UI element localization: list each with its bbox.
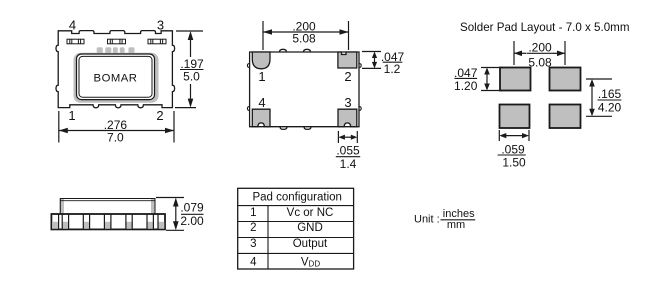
svg-text:1.4: 1.4 xyxy=(340,157,357,171)
svg-text:4: 4 xyxy=(69,18,76,33)
svg-text:5.0: 5.0 xyxy=(183,70,200,84)
dimension .047/1.2 right of bottom view xyxy=(362,52,381,69)
svg-text:.165: .165 xyxy=(598,87,622,101)
pad 4 xyxy=(252,109,270,127)
inner cavity gray tabs xyxy=(74,47,159,103)
bottom view bottom edge bump right xyxy=(304,127,311,130)
dimension .276/7.0 below top view xyxy=(59,111,174,143)
solder pad top-right xyxy=(550,68,581,91)
svg-text:Pad configuration: Pad configuration xyxy=(252,191,342,203)
svg-text:4: 4 xyxy=(250,256,257,268)
svg-text:7.0: 7.0 xyxy=(107,130,124,144)
top view package outline xyxy=(56,31,175,108)
svg-text:3: 3 xyxy=(344,95,351,110)
bottom view left edge notch upper xyxy=(247,64,249,68)
svg-text:3: 3 xyxy=(250,238,256,250)
svg-text:.047: .047 xyxy=(454,66,478,80)
bottom view top edge bump right xyxy=(304,49,311,52)
solder pad bottom-right xyxy=(550,105,581,129)
bottom view bottom edge bump left xyxy=(280,127,287,130)
svg-text:.200: .200 xyxy=(528,41,552,55)
dimension .059/1.50 below solder pads xyxy=(499,130,529,141)
svg-text:mm: mm xyxy=(447,219,465,231)
BOMAR lid outer border xyxy=(77,54,155,100)
table outer border xyxy=(238,188,354,269)
svg-text:1: 1 xyxy=(250,207,256,219)
svg-text:.079: .079 xyxy=(180,201,204,215)
svg-text:1.2: 1.2 xyxy=(384,62,401,76)
svg-text:2: 2 xyxy=(156,108,163,123)
pad 1 (D-shape) xyxy=(252,52,270,69)
table row divider 2 xyxy=(238,221,354,223)
bottom view right edge notch upper xyxy=(359,64,361,68)
svg-text:2.00: 2.00 xyxy=(180,214,204,228)
svg-text:GND: GND xyxy=(297,222,323,234)
lid shadow rounded rect xyxy=(74,53,159,103)
seam weld pad right xyxy=(148,39,166,44)
seam weld pad left xyxy=(67,39,166,44)
side view lid outline xyxy=(60,199,155,215)
svg-text:.059: .059 xyxy=(501,142,525,156)
table column divider xyxy=(267,206,269,269)
svg-text:5.08: 5.08 xyxy=(292,32,316,46)
dimension .165/4.20 right of solder pads xyxy=(586,79,612,116)
svg-text:1: 1 xyxy=(258,69,265,84)
solder pad bottom-left xyxy=(500,105,530,129)
dimension .079/2.00 side view xyxy=(156,198,184,231)
table row divider 3 xyxy=(238,237,354,239)
svg-text:.055: .055 xyxy=(336,144,360,158)
side view lid inner top line xyxy=(60,200,155,202)
dimension .200/5.08 above bottom view xyxy=(263,21,349,50)
svg-text:Unit :: Unit : xyxy=(414,214,440,226)
svg-text:BOMAR: BOMAR xyxy=(94,72,138,84)
side view base body xyxy=(51,214,165,229)
bottom view top edge bump left xyxy=(280,49,287,52)
bottom view right edge notch lower xyxy=(359,107,361,111)
svg-text:Vc or NC: Vc or NC xyxy=(287,207,334,219)
side view lid gray strips xyxy=(60,199,65,214)
side view castellations xyxy=(52,222,164,229)
svg-text:2: 2 xyxy=(250,222,256,234)
pad 2 xyxy=(338,52,357,68)
dimension .200/5.08 solder pads xyxy=(514,41,565,65)
svg-text:1.20: 1.20 xyxy=(454,79,478,93)
dimension .055/1.4 below bottom view xyxy=(338,131,357,143)
unit fraction bar xyxy=(441,219,476,221)
seam weld pad middle xyxy=(108,39,126,44)
svg-text:1: 1 xyxy=(68,108,75,123)
svg-text:Output: Output xyxy=(293,238,328,250)
dimension .197/5.0 right of top view xyxy=(175,31,203,108)
svg-text:2: 2 xyxy=(344,69,351,84)
table row divider 4 xyxy=(238,252,354,254)
BOMAR lid inner border xyxy=(79,56,152,97)
svg-text:4.20: 4.20 xyxy=(598,101,622,115)
svg-text:4: 4 xyxy=(258,95,265,110)
bottom view package outline xyxy=(247,49,361,129)
pad 3 xyxy=(338,109,357,127)
svg-text:3: 3 xyxy=(157,18,164,33)
table header divider xyxy=(238,205,354,207)
svg-text:Solder Pad Layout - 7.0 x 5.0m: Solder Pad Layout - 7.0 x 5.0mm xyxy=(460,21,630,34)
svg-text:1.50: 1.50 xyxy=(502,155,526,169)
bottom view left edge notch lower xyxy=(247,107,249,111)
solder pad top-left xyxy=(500,68,531,91)
svg-text:5.08: 5.08 xyxy=(528,56,552,70)
dimension .047/1.20 left of solder pads xyxy=(481,68,503,91)
